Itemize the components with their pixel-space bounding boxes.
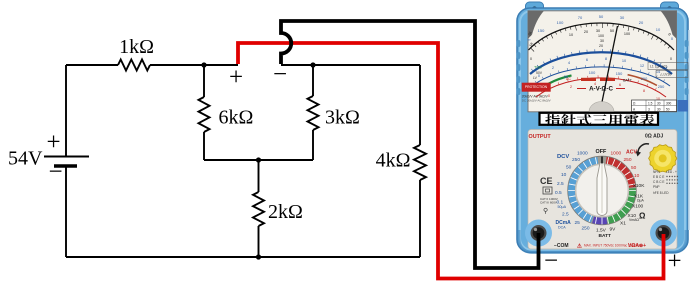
node dot 2k/bottom xyxy=(256,254,261,259)
body bottom lip shading xyxy=(519,230,686,253)
svg-text:X1: X1 xyxy=(620,221,626,227)
svg-text:OUTPUT: OUTPUT xyxy=(529,134,552,140)
svg-text:X100: X100 xyxy=(632,204,644,210)
svg-text:ΩμA: ΩμA xyxy=(637,199,644,203)
svg-text:6kΩ: 6kΩ xyxy=(219,107,254,129)
svg-text:150: 150 xyxy=(538,28,545,33)
svg-text:6: 6 xyxy=(619,83,621,87)
svg-text:CE: CE xyxy=(540,176,553,186)
svg-text:+: + xyxy=(46,129,60,156)
scale arc: red AC xyxy=(536,78,666,97)
svg-text:4kΩ: 4kΩ xyxy=(376,150,411,172)
scale arc: blue secondary xyxy=(532,67,670,86)
svg-text:300: 300 xyxy=(666,102,672,106)
svg-text:2.5: 2.5 xyxy=(562,212,569,218)
svg-text:LED - +: LED - + xyxy=(666,170,677,174)
resistor R2 6kOhm vertical xyxy=(203,65,205,97)
COM black input jack xyxy=(525,220,552,247)
svg-text:100: 100 xyxy=(598,34,604,38)
svg-text:30: 30 xyxy=(600,39,604,43)
zero adjust yellow knob xyxy=(636,144,677,172)
svg-text:100: 100 xyxy=(589,70,596,75)
svg-text:0: 0 xyxy=(548,94,550,98)
svg-text:6: 6 xyxy=(586,57,588,62)
needle pivot cover xyxy=(589,102,614,113)
svg-text:L1 1μA ad1: L1 1μA ad1 xyxy=(650,65,667,69)
meter needle xyxy=(602,26,618,102)
red zone bars center xyxy=(581,78,596,81)
svg-text:0: 0 xyxy=(670,57,672,61)
jack labels and warnings xyxy=(554,243,646,250)
scale arc: blue V/A with ticks xyxy=(530,52,672,74)
battery V1 54V xyxy=(65,65,67,157)
svg-text:25: 25 xyxy=(575,220,581,226)
svg-text:100: 100 xyxy=(557,20,564,25)
scale numbers xyxy=(528,14,674,42)
CE mark and safety icons xyxy=(540,176,558,215)
svg-text:100: 100 xyxy=(624,32,630,36)
node dot junction 3k xyxy=(310,62,315,67)
rotary range dial xyxy=(568,156,637,225)
svg-text:DCA: DCA xyxy=(558,226,566,230)
svg-text:−: − xyxy=(48,159,62,186)
svg-text:10: 10 xyxy=(656,27,661,32)
svg-text:30: 30 xyxy=(596,29,600,33)
svg-text:2kΩ: 2kΩ xyxy=(268,201,303,223)
svg-text:50: 50 xyxy=(599,14,604,19)
svg-text:1kΩ: 1kΩ xyxy=(119,36,154,58)
svg-text:50V: 50V xyxy=(536,71,543,75)
svg-text:0: 0 xyxy=(530,57,532,61)
svg-text:TΩD: TΩD xyxy=(534,66,542,70)
svg-text:9V: 9V xyxy=(610,227,617,233)
svg-text:BATT: BATT xyxy=(599,233,612,239)
svg-text:50: 50 xyxy=(610,29,614,33)
svg-text:0.5: 0.5 xyxy=(555,190,562,196)
wire: 1k to + node xyxy=(150,64,238,66)
svg-text:10: 10 xyxy=(569,33,573,37)
dial range labels xyxy=(555,151,590,232)
svg-text:3kΩ: 3kΩ xyxy=(325,107,360,129)
svg-text:50μA: 50μA xyxy=(558,205,567,209)
svg-text:△ LV30: △ LV30 xyxy=(660,73,671,77)
svg-text:CAT III 600V: CAT III 600V xyxy=(540,201,557,205)
svg-text:NPN: NPN xyxy=(653,170,660,174)
svg-text:BATT: BATT xyxy=(623,79,633,83)
svg-text:30: 30 xyxy=(657,102,661,106)
svg-text:E B C E: E B C E xyxy=(653,175,664,179)
svg-text:250: 250 xyxy=(658,84,665,89)
svg-text:DC 20kΩ/V AC 8kΩ/V: DC 20kΩ/V AC 8kΩ/V xyxy=(522,99,551,103)
svg-text:50: 50 xyxy=(631,165,637,171)
lower control panel xyxy=(528,130,677,250)
svg-text:150: 150 xyxy=(616,71,623,76)
svg-text:∞: ∞ xyxy=(528,37,531,42)
V-Ohm-A red input jack xyxy=(650,220,677,247)
dial knob pointer at OFF xyxy=(597,162,607,215)
resistor R1 1kOhm horizontal xyxy=(118,60,150,71)
svg-text:A-V-Ω-C: A-V-Ω-C xyxy=(589,86,613,93)
scale arc: green ohms-adj segment + red segment xyxy=(539,75,571,89)
svg-text:250: 250 xyxy=(624,157,632,163)
svg-text:Ω: Ω xyxy=(639,212,646,221)
svg-text:50: 50 xyxy=(566,165,572,171)
svg-text:20: 20 xyxy=(599,44,603,48)
svg-text:1.5: 1.5 xyxy=(648,102,653,106)
svg-text:10: 10 xyxy=(634,173,640,179)
svg-text:PROTECTION: PROTECTION xyxy=(525,85,548,89)
svg-text:VmAΩ: VmAΩ xyxy=(629,218,639,222)
wire: bottom return xyxy=(66,256,420,258)
svg-text:+: + xyxy=(667,248,681,275)
svg-text:2.5: 2.5 xyxy=(557,181,564,187)
resistor R5 4kOhm vertical right branch xyxy=(419,65,421,145)
svg-text:ACV: ACV xyxy=(626,150,637,156)
wire: battery + to 1k resistor xyxy=(66,64,118,66)
svg-text:20: 20 xyxy=(639,20,644,25)
right spec boxes xyxy=(648,63,688,78)
svg-text:3: 3 xyxy=(648,107,650,111)
wire: - node across to right branch xyxy=(281,64,420,66)
svg-text:8: 8 xyxy=(643,89,645,93)
svg-text:2: 2 xyxy=(552,65,554,70)
node dot junction 6k/3k/2k xyxy=(256,157,261,162)
svg-text:20: 20 xyxy=(584,30,588,34)
scale arc: ohms (black) with ticks xyxy=(529,23,675,50)
svg-text:1000: 1000 xyxy=(577,151,588,157)
svg-text:2: 2 xyxy=(570,85,572,89)
wire: 6k bottom to 3k bottom xyxy=(204,159,313,161)
resistor R4 2kOhm vertical xyxy=(258,160,260,192)
svg-text:−: − xyxy=(544,248,558,275)
svg-text:10: 10 xyxy=(561,172,567,178)
resistor R3 3kOhm vertical xyxy=(312,65,314,96)
svg-text:250: 250 xyxy=(572,157,580,163)
svg-text:+: + xyxy=(229,64,243,91)
svg-text:1000: 1000 xyxy=(611,151,622,157)
svg-text:250: 250 xyxy=(582,226,590,232)
svg-text:8: 8 xyxy=(605,56,607,61)
brand logo box xyxy=(522,83,551,92)
transistor test info block xyxy=(653,170,678,195)
svg-text:OFF: OFF xyxy=(596,149,607,155)
svg-text:VΩA⊕+: VΩA⊕+ xyxy=(628,243,646,249)
svg-text:1.5V: 1.5V xyxy=(596,228,607,234)
svg-text:X10K: X10K xyxy=(633,183,646,189)
black test lead: - node, hop over red, top run, down, to COM jack xyxy=(281,21,539,268)
svg-text:⚲: ⚲ xyxy=(543,207,548,215)
svg-text:54V: 54V xyxy=(8,148,43,170)
svg-text:PNP: PNP xyxy=(653,185,660,189)
svg-text:0Ω ADJ: 0Ω ADJ xyxy=(645,134,663,140)
label box: pointer-type multimeter (Chinese) xyxy=(540,113,659,125)
svg-text:12: 12 xyxy=(640,63,644,68)
svg-text:30: 30 xyxy=(620,15,625,20)
svg-text:C B C E: C B C E xyxy=(653,180,665,184)
svg-text:50: 50 xyxy=(666,107,670,111)
svg-text:DCV: DCV xyxy=(557,154,569,160)
analog multimeter: body shell xyxy=(517,2,690,253)
svg-text:hFE 8 LED: hFE 8 LED xyxy=(653,191,669,195)
red test lead: + node, top run, down, bottom run, to V jack xyxy=(238,43,664,279)
scale end labels at face edges xyxy=(527,30,672,61)
bottom-right spec table xyxy=(632,100,689,112)
svg-text:70: 70 xyxy=(578,15,583,20)
meter scale face plate xyxy=(528,11,677,112)
node dot junction 1k/6k/red-lead xyxy=(201,62,206,67)
svg-text:30: 30 xyxy=(657,107,661,111)
svg-text:200: 200 xyxy=(641,76,648,81)
